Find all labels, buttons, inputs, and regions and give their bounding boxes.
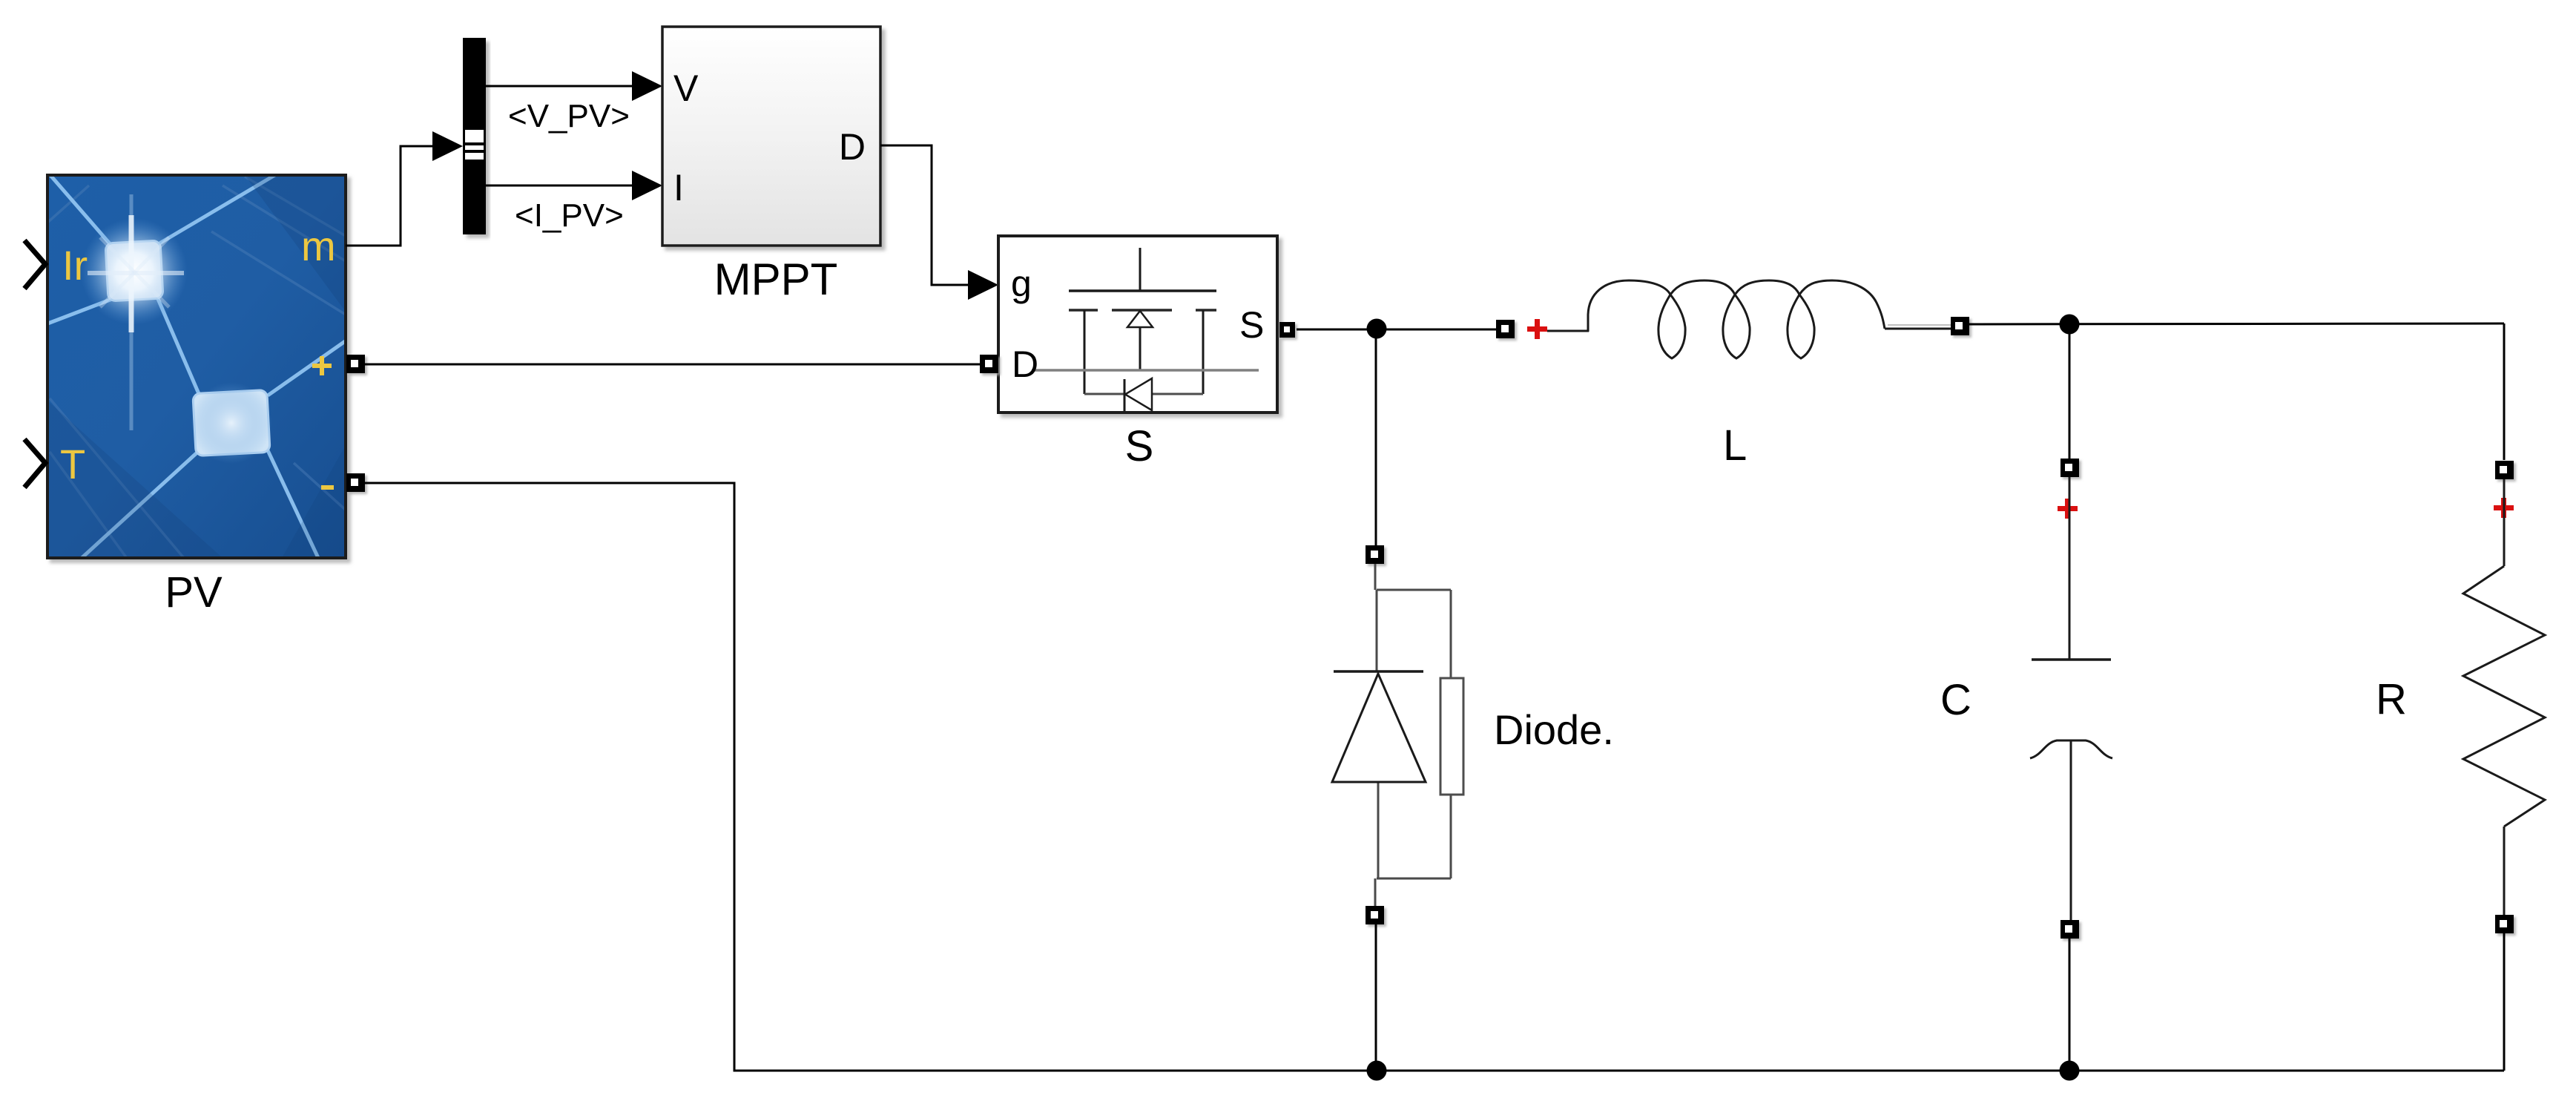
resistor top pad <box>2495 461 2514 479</box>
bus selector block <box>463 38 486 234</box>
drain vertical right <box>1202 310 1205 394</box>
wire capacitor bottom to ground bus <box>2069 939 2071 1071</box>
junction node B dot <box>2060 315 2080 335</box>
svg-text:Diode.: Diode. <box>1494 706 1614 753</box>
bright cell square 1 <box>105 240 163 301</box>
capacitor polarity + mark <box>2058 499 2078 519</box>
diode triangle <box>1332 674 1426 782</box>
svg-text:S: S <box>1239 304 1264 346</box>
svg-text:C: C <box>1940 676 1971 724</box>
diode D1 composite icon <box>1375 564 1451 906</box>
arrowhead into switch g <box>968 270 998 300</box>
resistor polarity + mark <box>2494 498 2514 518</box>
diode bottom pad <box>1366 906 1384 924</box>
source vertical left <box>1084 310 1086 394</box>
gray drain rail <box>1032 369 1259 372</box>
svg-text:D: D <box>1012 344 1038 385</box>
resistor R zigzag <box>2463 566 2545 827</box>
wire switch S to node A <box>1297 329 1497 331</box>
faint texture diagonals <box>47 177 349 557</box>
capacitor top pad <box>2061 459 2079 477</box>
svg-text:D: D <box>839 126 866 168</box>
arrowhead into MPPT I <box>632 171 662 200</box>
diode top pad <box>1366 545 1384 564</box>
wire resistor bottom to ground bus <box>2503 933 2506 1071</box>
svg-text:MPPT: MPPT <box>714 254 838 304</box>
capacitor bottom pad <box>2061 920 2079 939</box>
diode cathode bar <box>1334 670 1423 673</box>
vertical glare streak <box>130 194 134 430</box>
junction node A dot <box>1367 319 1387 339</box>
main grid lines <box>46 174 347 559</box>
PV port label + <box>312 356 332 375</box>
substrate arrow triangle <box>1127 311 1153 327</box>
inductor L coil <box>1588 280 1885 358</box>
arrowhead into MPPT V <box>632 71 662 101</box>
PV input port T chevron <box>24 439 45 487</box>
gate bar <box>1069 289 1216 292</box>
inductor polarity + mark <box>1527 319 1547 339</box>
body diode cathode bar <box>1124 379 1126 411</box>
wire PV - to bottom bus <box>365 483 2504 1071</box>
MOSFET switch block S <box>998 236 1277 413</box>
wire diode bottom to ground bus <box>1375 924 1377 1071</box>
svg-text:<V_PV>: <V_PV> <box>508 98 630 134</box>
svg-text:g: g <box>1011 263 1032 304</box>
wire inductor to node B and load R <box>1969 323 2504 324</box>
body diode bottom link <box>1084 393 1203 395</box>
starburst glare <box>81 218 188 325</box>
capacitor top lead <box>2069 477 2071 659</box>
junction bottom node B dot <box>2060 1061 2080 1081</box>
wire bus selector V_PV output <box>486 85 632 88</box>
wire PV + to switch D <box>365 364 980 366</box>
svg-text:R: R <box>2376 675 2407 723</box>
resistor bottom pad <box>2495 915 2514 933</box>
body diode triangle <box>1125 378 1152 410</box>
inductor left pad <box>1496 320 1515 338</box>
PV input port Ir chevron <box>24 240 45 289</box>
load branch wire down to R <box>2503 323 2506 460</box>
svg-text:V: V <box>673 68 699 109</box>
center vertical <box>1139 327 1142 370</box>
PV + output pad <box>346 355 365 373</box>
svg-text:Ir: Ir <box>62 242 88 289</box>
diode branch wire from node A down <box>1375 329 1377 546</box>
switch S output pad <box>1279 322 1295 338</box>
svg-text:S: S <box>1125 422 1154 470</box>
resistor bottom lead <box>2503 827 2506 916</box>
inductor lead to right pad <box>1885 328 1951 330</box>
arrowhead into bus selector <box>432 131 463 161</box>
PV - output pad <box>346 473 365 492</box>
svg-text:I: I <box>673 167 684 208</box>
wire MPPT D to switch gate <box>880 145 971 285</box>
capacitor bottom plate <box>2030 740 2112 758</box>
capacitor bottom lead <box>2070 740 2072 921</box>
gate top lead <box>1139 248 1142 291</box>
junction bottom node A dot <box>1367 1061 1387 1081</box>
wire m to bus selector <box>346 146 436 246</box>
MPPT controller block <box>662 27 880 246</box>
svg-text:T: T <box>60 441 85 487</box>
svg-text:L: L <box>1723 421 1747 470</box>
svg-text:<I_PV>: <I_PV> <box>515 197 624 234</box>
resistor top lead <box>2503 479 2506 566</box>
wire + mark to coil <box>1547 330 1589 332</box>
PV port label - <box>321 485 334 490</box>
inductor right pad <box>1951 317 1969 335</box>
capacitor branch wire from node B down <box>2069 324 2071 460</box>
svg-text:PV: PV <box>165 568 223 617</box>
switch D input pad <box>980 355 998 373</box>
wire bus selector I_PV output <box>486 185 632 187</box>
capacitor top plate <box>2032 658 2111 661</box>
channel segments <box>1069 309 1216 312</box>
svg-text:m: m <box>301 223 336 269</box>
diode snubber resistor <box>1440 678 1463 795</box>
bright cell square 2 <box>193 390 270 456</box>
PV array block U_PV <box>46 174 349 559</box>
